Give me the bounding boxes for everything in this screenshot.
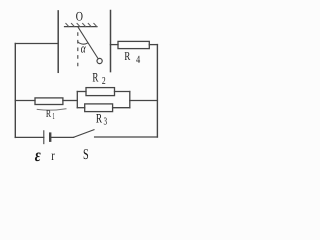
battery long plate [43,131,45,144]
resistor R1 [35,98,63,105]
svg-text:R: R [92,70,98,85]
wire right plate to R4 [111,44,119,46]
svg-text:r: r [51,149,55,164]
battery short plate [49,134,51,141]
wire battery to switch [50,136,73,138]
svg-text:ε: ε [35,145,41,164]
wire node to R3 [77,107,84,109]
svg-text:α: α [81,40,87,55]
svg-text:3: 3 [104,116,108,127]
wire R1 to node [63,100,77,102]
resistor R4 [118,41,149,48]
wire R3 to right node [113,107,130,109]
angle arc [78,42,88,44]
wire R4 to right edge [149,44,157,46]
dashed vertical line [77,32,79,67]
svg-text:R: R [46,109,51,120]
pendulum ball [97,58,102,63]
wire left edge [14,44,16,138]
wire node to right edge [130,100,158,102]
svg-text:1: 1 [52,111,54,121]
switch S lever [74,130,94,138]
artifact line under R1 [37,109,66,110]
svg-text:4: 4 [136,54,141,66]
ceiling hatching [66,23,97,26]
resistor R2 [86,88,115,96]
wire switch to right corner [95,136,158,138]
wire R1 left [15,100,35,102]
resistor R3 [85,104,113,112]
pendulum string [78,27,98,59]
svg-text:O: O [76,8,83,23]
svg-text:2: 2 [102,76,106,87]
capacitor left plate [57,11,59,72]
wire top-left to plate [15,43,58,45]
svg-text:R: R [124,49,130,63]
svg-text:R: R [96,111,102,126]
node right vertical [129,92,131,108]
capacitor right plate [110,11,112,72]
wire R2 to right node [115,91,130,93]
ceiling line [65,26,98,28]
wire bottom left [15,136,44,138]
svg-text:S: S [83,147,89,163]
wire right edge [156,45,158,137]
node left vertical [76,92,78,108]
wire node to R2 [77,91,86,93]
